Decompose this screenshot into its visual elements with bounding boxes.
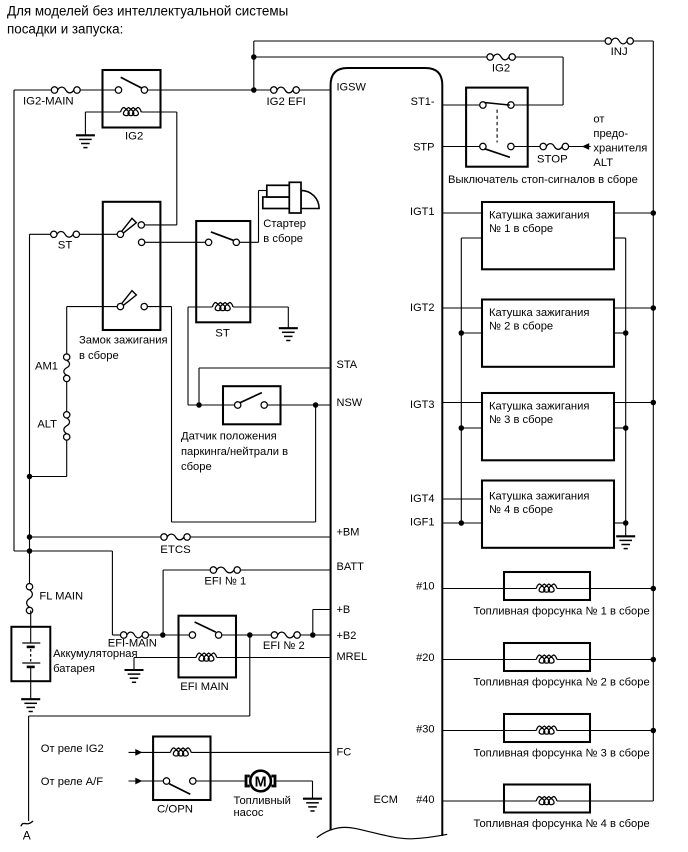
wire NSW row <box>188 404 238 406</box>
svg-text:Топливная форсунка № 3 в сборе: Топливная форсунка № 3 в сборе <box>474 748 650 760</box>
ground battery <box>21 698 40 700</box>
ground ST relay <box>279 327 298 329</box>
svg-text:INJ: INJ <box>611 46 628 58</box>
junction dot bus injector 2 <box>651 657 657 663</box>
svg-text:ETCS: ETCS <box>160 544 191 556</box>
junction dot STA-NSW <box>196 402 202 408</box>
svg-text:Топливная форсунка № 1 в сборе: Топливная форсунка № 1 в сборе <box>474 606 650 618</box>
ground ignition coils <box>616 535 635 537</box>
inductor injector 3 coil <box>536 726 557 734</box>
svg-text:ST: ST <box>58 239 73 251</box>
svg-text:+B: +B <box>337 604 351 616</box>
wire ST fuse row <box>30 233 54 235</box>
svg-text:FC: FC <box>337 747 352 759</box>
ground EFI MAIN <box>125 669 144 671</box>
wire #40 row <box>442 800 504 802</box>
wire STP row <box>442 146 483 148</box>
wire IGT3 row <box>442 402 482 404</box>
park/neutral switch blade <box>240 393 262 403</box>
svg-text:Стартер: Стартер <box>263 218 306 230</box>
wire IGSW row from IG2-MAIN fuse to ECM <box>14 89 55 91</box>
svg-text:+BM: +BM <box>337 527 360 539</box>
fuse FL MAIN <box>27 590 33 607</box>
wire #20 row <box>442 659 504 661</box>
relay C/OPN contacts <box>163 778 169 784</box>
fuse IG2 <box>493 54 509 60</box>
wire IG2 relay coil row <box>85 111 120 113</box>
wire +BM row with ETCS <box>30 536 165 538</box>
wire EFI-MAIN row <box>112 634 123 636</box>
park/neutral switch contacts <box>235 402 241 408</box>
svg-text:FL MAIN: FL MAIN <box>39 590 83 602</box>
relay C/OPN blade <box>169 784 190 795</box>
svg-text:A: A <box>23 829 31 843</box>
inductor EFI MAIN coil <box>196 653 217 661</box>
inductor ST relay coil <box>212 303 233 311</box>
junction dot +B link <box>310 632 316 638</box>
svg-text:от: от <box>593 114 604 126</box>
relay ST switch blade <box>211 232 234 241</box>
fuse EFI-MAIN <box>127 632 142 638</box>
fuse IG2 EFI <box>277 87 293 93</box>
svg-text:№ 2 в сборе: № 2 в сборе <box>489 321 553 333</box>
wire top bus row to INJ fuse <box>254 40 609 42</box>
relay IG2 switch contacts <box>115 87 121 93</box>
stop switch link dashed <box>496 110 498 143</box>
wire ignition lower contact right <box>147 306 171 308</box>
svg-text:IGT2: IGT2 <box>410 302 434 314</box>
fuel injector 4 box <box>504 785 590 813</box>
ignition coil 4 box <box>482 481 614 548</box>
junction dot NSW loop <box>313 402 319 408</box>
break symbol A <box>21 821 33 826</box>
svg-text:M: M <box>255 774 267 790</box>
wire IGT1 row <box>442 212 482 214</box>
svg-text:STOP: STOP <box>537 154 568 166</box>
wire coil 2 IGF pin <box>461 332 482 334</box>
wire left bus vertical x=29.5 <box>29 234 31 586</box>
wire NSW loop up to NSW row <box>315 405 317 522</box>
wire coil 1 +B to bus <box>614 212 653 214</box>
svg-text:MREL: MREL <box>337 651 368 663</box>
svg-text:АМ1: АМ1 <box>35 361 58 373</box>
ignition switch lower pivot <box>117 303 123 309</box>
fuse ETCS <box>167 534 184 540</box>
wire coil 4 ground pin <box>614 522 626 524</box>
svg-text:IG2 EFI: IG2 EFI <box>267 96 306 108</box>
wire ST1- row <box>442 104 483 106</box>
wire IGF vertical <box>460 238 462 523</box>
junction dot bus coil 1 <box>651 210 657 216</box>
wire #10 row <box>442 588 504 590</box>
inductor IG2 relay coil <box>121 108 142 116</box>
stop switch upper blade <box>484 103 510 106</box>
svg-text:Аккумуляторная: Аккумуляторная <box>53 648 138 660</box>
svg-text:№ 4 в сборе: № 4 в сборе <box>489 504 553 516</box>
fuel pump motor <box>245 775 248 788</box>
ignition coil 1 box <box>482 202 614 269</box>
fuel injector 2 box <box>504 643 590 671</box>
svg-text:BATT: BATT <box>337 561 365 573</box>
wire coil 1 ground pin <box>614 237 626 239</box>
wire branch down to EFI-MAIN <box>111 551 113 635</box>
starter assembly icon <box>263 197 290 209</box>
stop switch lower contacts <box>480 143 486 149</box>
svg-text:Выключатель стоп-сигналов в сб: Выключатель стоп-сигналов в сборе <box>448 174 638 186</box>
wire ignition upper contact to IG2 coil feed <box>145 224 177 226</box>
wire EFI MAIN coil to ground <box>133 658 135 670</box>
svg-text:IG2: IG2 <box>125 131 143 143</box>
wire ALT to left bus <box>30 476 67 478</box>
svg-text:батарея: батарея <box>53 663 95 675</box>
inductor injector 4 coil <box>536 797 557 805</box>
ignition switch upper pivot <box>117 231 123 237</box>
svg-text:в сборе: в сборе <box>79 350 119 362</box>
svg-text:Замок зажигания: Замок зажигания <box>79 335 168 347</box>
relay EFI MAIN blade <box>195 622 216 632</box>
ECM torn bottom edge <box>317 827 447 838</box>
ground fuel pump <box>303 798 322 800</box>
svg-text:IGT4: IGT4 <box>410 493 434 505</box>
svg-text:#30: #30 <box>416 724 434 736</box>
inductor injector 1 coil <box>536 584 557 592</box>
ignition coil 3 box <box>482 393 614 460</box>
wire coil 3 +B to bus <box>614 402 653 404</box>
svg-text:ALT: ALT <box>37 419 57 431</box>
stop switch lower blade <box>484 149 510 158</box>
svg-text:Катушка зажигания: Катушка зажигания <box>489 401 589 413</box>
svg-text:От реле A/F: От реле A/F <box>41 776 103 788</box>
wire BATT feed down <box>162 570 164 635</box>
ignition switch upper contact 1 <box>138 222 144 228</box>
junction dot ground line coil 2 <box>623 330 629 336</box>
svg-text:насос: насос <box>234 807 264 819</box>
svg-text:паркинга/нейтрали в: паркинга/нейтрали в <box>181 446 288 458</box>
svg-text:EFI № 1: EFI № 1 <box>204 575 246 587</box>
junction dot bus injector 1 <box>651 586 657 592</box>
svg-text:IGSW: IGSW <box>337 82 367 94</box>
wire NSW loop bottom row <box>172 521 316 523</box>
svg-text:посадки и запуска:: посадки и запуска: <box>7 22 123 37</box>
fuel injector 3 box <box>504 714 590 742</box>
svg-text:IG2-MAIN: IG2-MAIN <box>23 96 74 108</box>
inductor injector 2 coil <box>536 655 557 663</box>
fuel injector 1 box <box>504 572 590 600</box>
junction dot IGF line coil 3 <box>459 425 465 431</box>
junction dot branch <box>27 548 33 554</box>
svg-text:№ 3 в сборе: № 3 в сборе <box>489 414 553 426</box>
ignition switch upper wedge <box>122 218 137 233</box>
wire coil 2 +B to bus <box>614 307 653 309</box>
wire +B2 down feed <box>249 635 251 716</box>
ECM main box outline <box>331 68 443 836</box>
junction dot bus injector 3 <box>651 728 657 734</box>
fuse EFI No2 <box>278 632 294 638</box>
wire ST coil to NSW row <box>187 307 189 405</box>
svg-text:#20: #20 <box>416 652 434 664</box>
svg-text:Топливная форсунка № 2 в сборе: Топливная форсунка № 2 в сборе <box>474 677 650 689</box>
wire STA row <box>199 367 331 369</box>
svg-text:EFI № 2: EFI № 2 <box>263 640 305 652</box>
svg-text:ALT: ALT <box>593 157 613 169</box>
junction dot +B2 branch <box>247 632 253 638</box>
svg-text:Катушка зажигания: Катушка зажигания <box>489 491 589 503</box>
wire BATT row with EFI No1 <box>163 569 213 571</box>
junction dot ground line coil 3 <box>623 425 629 431</box>
junction dot bus coil 3 <box>651 400 657 406</box>
svg-text:ST: ST <box>215 328 230 340</box>
svg-text:#10: #10 <box>416 581 434 593</box>
svg-text:От реле IG2: От реле IG2 <box>41 743 104 755</box>
fuse INJ <box>612 38 628 44</box>
wire from IG2 fuse down to stop light switch <box>562 57 564 105</box>
svg-text:Катушка зажигания: Катушка зажигания <box>489 210 589 222</box>
ignition switch upper contact 2 <box>138 239 144 245</box>
ignition switch lower contact <box>141 303 147 309</box>
wire IGT2 row <box>442 307 482 309</box>
ignition coil 2 box <box>482 300 614 367</box>
svg-text:Топливный: Топливный <box>234 795 291 807</box>
wire IG2 fuse row <box>254 56 490 58</box>
wire AM1-ALT vertical <box>66 307 68 355</box>
svg-text:сборе: сборе <box>181 461 212 473</box>
wire vertical junction feed at x=254 <box>253 41 255 90</box>
wire branch row y551 <box>14 550 112 552</box>
fuse EFI No1 <box>217 567 234 573</box>
relay EFI MAIN contacts <box>189 632 195 638</box>
wire C/OPN switch row <box>129 780 167 782</box>
fuse ALT <box>64 418 70 434</box>
park/neutral position switch box <box>223 386 281 424</box>
battery cells <box>30 610 32 643</box>
wire coil ground vertical <box>625 238 627 536</box>
arrow from ALT fuse <box>582 143 589 150</box>
relay C/OPN box <box>153 737 210 801</box>
junction dot +BM <box>27 534 33 540</box>
wire down to connector A <box>28 716 30 821</box>
svg-text:IGT3: IGT3 <box>410 399 434 411</box>
wire bottom feed row <box>29 715 250 717</box>
wire FC row with C/OPN coil <box>129 751 171 753</box>
svg-text:Топливная форсунка № 4 в сборе: Топливная форсунка № 4 в сборе <box>474 818 650 830</box>
svg-text:Катушка зажигания: Катушка зажигания <box>489 307 589 319</box>
wire ST coil to ground <box>287 307 289 328</box>
svg-text:NSW: NSW <box>337 397 363 409</box>
junction dot coil ground line <box>623 520 629 526</box>
svg-text:хранителя: хранителя <box>593 143 647 155</box>
relay EFI MAIN box <box>179 616 237 678</box>
junction dot IGF1 <box>459 520 465 526</box>
wire ST relay coil row <box>188 306 212 308</box>
relay ST switch contacts <box>205 239 211 245</box>
svg-text:в сборе: в сборе <box>263 233 303 245</box>
svg-text:EFI MAIN: EFI MAIN <box>180 681 228 693</box>
wire MREL row with EFI MAIN coil <box>134 657 196 659</box>
wire STOP to ALT arrow <box>569 146 591 148</box>
fuse AM1 <box>64 360 70 375</box>
arrow from A/F relay <box>135 778 142 785</box>
svg-text:EFI-MAIN: EFI-MAIN <box>108 638 157 650</box>
junction dot BATT/EFI-MAIN <box>160 632 166 638</box>
wire IG2 coil to ground <box>84 112 86 135</box>
wire coil 3 IGF pin <box>461 427 482 429</box>
wire IGF1 row <box>442 522 482 524</box>
junction dot IGSW row feed <box>251 87 256 93</box>
stop light switch box <box>466 88 528 167</box>
fuse IG2-MAIN <box>58 87 74 93</box>
svg-text:#40: #40 <box>416 794 434 806</box>
wire right +B bus vertical <box>652 41 654 801</box>
svg-text:IGF1: IGF1 <box>410 517 434 529</box>
wire +B link <box>312 610 314 636</box>
svg-text:ECM: ECM <box>374 794 398 806</box>
wire coil 3 ground pin <box>614 427 626 429</box>
wire far-left vertical from IG2-MAIN row <box>13 90 15 551</box>
wire ignition mid contact to ST relay <box>145 241 209 243</box>
svg-text:IGT1: IGT1 <box>410 206 434 218</box>
wire coil 1 IGF pin <box>461 237 482 239</box>
stop switch upper contacts <box>480 102 486 108</box>
junction dot IGF line coil 2 <box>459 330 465 336</box>
relay ST box <box>196 221 250 322</box>
wire IG2 coil feed down to ignition switch <box>176 112 178 225</box>
svg-text:№ 1 в сборе: № 1 в сборе <box>489 223 553 235</box>
arrow from IG2 relay <box>135 749 142 756</box>
wire AM1 feed to ignition lower pivot <box>67 306 118 308</box>
svg-text:+B2: +B2 <box>337 630 357 642</box>
wire ST relay to starter <box>240 241 259 243</box>
wire down to NSW loop <box>171 307 173 522</box>
svg-text:ST1-: ST1- <box>411 96 435 108</box>
svg-text:предо-: предо- <box>593 128 628 140</box>
svg-text:STA: STA <box>337 359 358 371</box>
junction dot IG2 row feed <box>251 54 256 60</box>
svg-text:IG2: IG2 <box>492 63 510 75</box>
battery box <box>11 627 50 681</box>
svg-text:C/OPN: C/OPN <box>157 803 193 815</box>
junction dot ALT feed <box>27 474 33 480</box>
ignition switch lower wedge <box>122 291 137 306</box>
fuse STOP <box>546 144 562 150</box>
relay IG2 switch blade <box>121 77 142 88</box>
svg-text:Датчик положения: Датчик положения <box>181 431 277 443</box>
fuse ST <box>57 231 73 237</box>
wire IGT4 row <box>442 498 482 500</box>
ignition switch box <box>103 202 161 330</box>
ground IG2 relay <box>76 134 95 136</box>
relay IG2 box <box>103 70 161 128</box>
wire pump to ground <box>276 780 312 782</box>
junction dot bus coil 2 <box>651 305 657 311</box>
wire coil 2 ground pin <box>614 332 626 334</box>
svg-text:Для моделей без интеллектуальн: Для моделей без интеллектуальной системы <box>7 4 288 19</box>
svg-text:STP: STP <box>413 142 434 154</box>
inductor C/OPN coil <box>170 748 191 756</box>
wire #30 row <box>442 730 504 732</box>
